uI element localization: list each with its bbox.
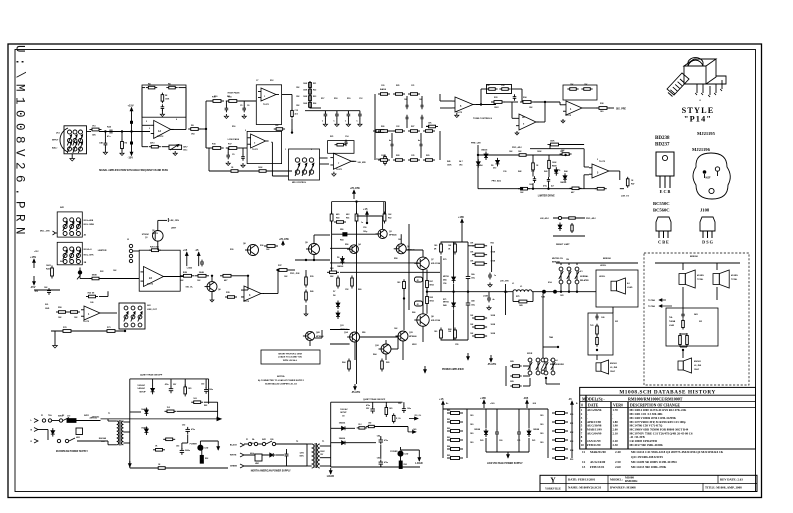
- svg-text:100K: 100K: [165, 99, 170, 101]
- svg-text:D5: D5: [337, 257, 339, 259]
- svg-text:-165: -165: [523, 396, 529, 400]
- svg-text:BRIDGE: BRIDGE: [690, 256, 698, 258]
- svg-text:MUTED ON: MUTED ON: [552, 258, 563, 260]
- svg-text:C60: C60: [499, 440, 502, 442]
- svg-text:LOW PASS: LOW PASS: [228, 138, 240, 141]
- svg-text:60Hz: 60Hz: [250, 453, 254, 455]
- svg-text:1K4B: 1K4B: [199, 271, 205, 274]
- svg-text:LS_JNS: LS_JNS: [694, 365, 702, 367]
- svg-text:PRE_LIM: PRE_LIM: [471, 143, 481, 145]
- svg-text:R55: R55: [491, 243, 494, 245]
- svg-text:MC14214 C41 9816-4218 Q4 2007: MC14214 C41 9816-4218 Q4 200773-4MJ21196…: [631, 450, 724, 454]
- svg-text:240V AC: 240V AC: [90, 417, 98, 420]
- svg-text:LOAD: LOAD: [627, 286, 633, 289]
- svg-text:R66: R66: [412, 312, 415, 314]
- svg-text:MODEL:: MODEL:: [610, 477, 623, 481]
- svg-text:TL072: TL072: [243, 301, 250, 303]
- svg-text:470u: 470u: [191, 428, 195, 431]
- svg-text:BRIDGE/NORM: BRIDGE/NORM: [550, 364, 564, 366]
- svg-text:100K: 100K: [552, 162, 557, 164]
- svg-text:C28: C28: [501, 85, 504, 87]
- svg-text:C B E: C B E: [658, 240, 669, 245]
- svg-text:1K0: 1K0: [434, 245, 437, 247]
- svg-text:-15: -15: [568, 397, 572, 401]
- svg-text:R12: R12: [270, 80, 273, 82]
- svg-text:2: 2: [245, 130, 246, 132]
- svg-text:RESET LIMIT: RESET LIMIT: [556, 244, 570, 246]
- svg-text:R80: R80: [447, 410, 450, 412]
- svg-text:5R6: 5R6: [362, 332, 365, 334]
- svg-text:470u: 470u: [384, 439, 388, 442]
- svg-text:100K: 100K: [537, 151, 542, 153]
- svg-text:R29: R29: [426, 155, 429, 157]
- svg-text:R70: R70: [443, 259, 446, 261]
- svg-text:BS170: BS170: [152, 233, 158, 235]
- svg-text:10: 10: [581, 443, 585, 447]
- svg-text:Q5: Q5: [152, 230, 155, 232]
- svg-text:22K1: 22K1: [150, 143, 155, 145]
- svg-text:60Hz: 60Hz: [300, 456, 304, 458]
- svg-text:PRO_ADJ: PRO_ADJ: [512, 146, 521, 149]
- svg-text:ONLY: ONLY: [694, 369, 700, 371]
- svg-text:14K7: 14K7: [183, 146, 188, 149]
- svg-text:15K2: 15K2: [494, 107, 499, 109]
- svg-text:120V/: 120V/: [320, 451, 325, 453]
- svg-text:1K0B: 1K0B: [491, 333, 496, 335]
- svg-text:1K0: 1K0: [434, 331, 437, 333]
- svg-text:470u: 470u: [366, 404, 370, 407]
- svg-text:4K7: 4K7: [224, 279, 227, 282]
- svg-text:MC14213 960 100K-470K: MC14213 960 100K-470K: [631, 465, 667, 469]
- svg-text:100K: 100K: [303, 90, 308, 92]
- svg-text:WITH LS2 ALL: WITH LS2 ALL: [283, 359, 298, 362]
- svg-text:2.40: 2.40: [615, 450, 621, 454]
- svg-text:1n: 1n: [494, 275, 496, 277]
- svg-text:100n: 100n: [209, 389, 213, 391]
- svg-text:R75: R75: [516, 296, 519, 298]
- svg-text:LIM_JXN: LIM_JXN: [170, 220, 180, 222]
- svg-text:100K: 100K: [447, 165, 452, 167]
- svg-text:+16S: +16S: [490, 403, 495, 405]
- svg-text:2Ω: 2Ω: [699, 321, 702, 323]
- svg-text:R42: R42: [518, 170, 521, 173]
- svg-text:BD238: BD238: [655, 136, 670, 141]
- svg-text:Q21 2N5406-4MJ21195: Q21 2N5406-4MJ21195: [631, 455, 663, 459]
- svg-text:LOAD: LOAD: [669, 324, 675, 327]
- svg-text:1: 1: [285, 149, 286, 151]
- svg-text:SW1: SW1: [60, 207, 64, 209]
- svg-text:PRO_JXN: PRO_JXN: [290, 273, 300, 275]
- svg-text:F1: F1: [246, 439, 248, 441]
- svg-text:R28: R28: [396, 155, 399, 157]
- svg-text:1N0: 1N0: [368, 423, 371, 425]
- svg-text:1K0: 1K0: [540, 433, 543, 435]
- svg-text:1K0: 1K0: [397, 282, 400, 284]
- svg-text:5R6: 5R6: [340, 229, 343, 231]
- svg-text:R82: R82: [204, 405, 207, 407]
- svg-text:1K5: 1K5: [459, 165, 462, 167]
- svg-text:C4B: C4B: [99, 142, 103, 145]
- svg-text:+165: +165: [458, 215, 464, 219]
- svg-text:DESCRIPTION OF CHANGE: DESCRIPTION OF CHANGE: [630, 404, 681, 408]
- svg-text:SIG_MID: SIG_MID: [358, 162, 367, 164]
- svg-text:QUIET TRAN ON/OFF: QUIET TRAN ON/OFF: [363, 398, 386, 401]
- svg-text:J2: J2: [417, 304, 419, 306]
- svg-text:R10: R10: [214, 96, 217, 98]
- svg-text:R21: R21: [313, 83, 316, 85]
- svg-text:R45: R45: [447, 160, 450, 163]
- svg-text:BC560C: BC560C: [653, 208, 670, 213]
- svg-text:BASS: BASS: [380, 88, 387, 91]
- svg-text:+15V: +15V: [128, 103, 134, 107]
- svg-text:SPKR: SPKR: [527, 353, 533, 355]
- svg-text:E C B: E C B: [660, 189, 671, 194]
- svg-text:2.10: 2.10: [613, 431, 619, 435]
- svg-text:C7: C7: [256, 80, 258, 82]
- svg-text:100K: 100K: [258, 167, 263, 169]
- svg-text:C25: C25: [411, 155, 414, 157]
- svg-text:-15V: -15V: [128, 156, 134, 160]
- svg-text:R19: R19: [347, 98, 350, 100]
- svg-text:R23: R23: [313, 96, 316, 98]
- svg-text:C80: C80: [270, 439, 273, 441]
- svg-text:+15V: +15V: [30, 255, 36, 259]
- svg-text:-PLATE: -PLATE: [351, 390, 360, 394]
- svg-text:1K0: 1K0: [470, 442, 473, 444]
- svg-text:C23: C23: [426, 126, 429, 128]
- svg-text:D8: D8: [333, 295, 335, 297]
- svg-text:R26 1M: R26 1M: [88, 293, 95, 295]
- svg-text:LIMITER: LIMITER: [98, 250, 107, 252]
- svg-text:BC550C: BC550C: [653, 201, 670, 206]
- svg-text:LED: LED: [205, 448, 209, 450]
- svg-text:LOAD: LOAD: [187, 267, 193, 270]
- svg-text:D6: D6: [554, 171, 556, 173]
- svg-text:24Ω: 24Ω: [694, 313, 698, 316]
- svg-text:C83: C83: [176, 446, 179, 448]
- svg-text:TL072: TL072: [336, 169, 343, 171]
- svg-text:#: #: [581, 404, 583, 408]
- svg-text:R11: R11: [227, 96, 230, 98]
- svg-text:1K0: 1K0: [540, 415, 543, 417]
- svg-text:R60: R60: [358, 289, 361, 291]
- svg-text:100V.AC: 100V.AC: [340, 408, 348, 411]
- svg-text:RM1000x: RM1000x: [625, 479, 638, 483]
- svg-text:1K0: 1K0: [470, 415, 473, 417]
- svg-text:C56: C56: [443, 283, 446, 285]
- svg-text:POWER: POWER: [390, 451, 398, 453]
- svg-text:+16S: +16S: [412, 429, 417, 431]
- svg-text:K1A: K1A: [548, 281, 552, 284]
- svg-text:C50: C50: [363, 227, 366, 229]
- svg-text:HIGH PASS: HIGH PASS: [228, 92, 240, 95]
- svg-text:15.2: 15.2: [167, 407, 171, 409]
- svg-text:1K5: 1K5: [188, 388, 191, 390]
- svg-text:100u: 100u: [471, 278, 475, 280]
- svg-text:470u: 470u: [543, 185, 547, 188]
- svg-text:C9: C9: [232, 154, 234, 156]
- svg-text:C8: C8: [342, 415, 344, 417]
- svg-text:0R22: 0R22: [430, 301, 434, 303]
- svg-text:1K0: 1K0: [540, 424, 543, 426]
- svg-text:MJ21195: MJ21195: [697, 131, 716, 136]
- svg-text:1K0: 1K0: [470, 424, 473, 426]
- svg-text:MR750: MR750: [443, 276, 449, 278]
- svg-text:MJF: MJF: [706, 177, 711, 180]
- svg-text:R84: R84: [447, 445, 450, 448]
- svg-text:R16: R16: [232, 126, 235, 128]
- svg-text:+165: +165: [480, 396, 486, 400]
- svg-text:F2: F2: [62, 415, 64, 417]
- svg-text:T2A: T2A: [48, 414, 52, 417]
- svg-text:PRO_ADJ: PRO_ADJ: [492, 180, 501, 183]
- svg-text:R71: R71: [443, 299, 446, 301]
- svg-text:R46B: R46B: [552, 165, 557, 168]
- svg-text:MOL-10DB: MOL-10DB: [84, 224, 95, 226]
- svg-text:R2A: R2A: [107, 126, 112, 129]
- svg-text:1K0: 1K0: [540, 442, 543, 444]
- svg-text:U:\M1008V26.PRN: U:\M1008V26.PRN: [13, 45, 27, 240]
- svg-text:MOL-10TK: MOL-10TK: [84, 255, 95, 257]
- svg-text:J108: J108: [700, 208, 710, 213]
- svg-text:F1: F1: [41, 415, 43, 417]
- svg-text:C20: C20: [381, 85, 384, 87]
- svg-text:DATE: DATE: [588, 404, 599, 408]
- svg-text:R83: R83: [447, 437, 450, 439]
- svg-text:TITLE: M1008_AMP_1008: TITLE: M1008_AMP_1008: [705, 486, 742, 490]
- svg-text:R47: R47: [631, 183, 634, 186]
- svg-text:AUG/16/00: AUG/16/00: [590, 460, 606, 464]
- svg-text:2000u: 2000u: [185, 450, 190, 452]
- svg-text:C70: C70: [67, 416, 70, 418]
- svg-text:8Ω/16Ω: 8Ω/16Ω: [694, 361, 701, 363]
- svg-text:R53: R53: [330, 268, 333, 270]
- svg-text:NAME: M1008V26.SCH: NAME: M1008V26.SCH: [568, 486, 601, 490]
- svg-text:1N5/8B: 1N5/8B: [474, 429, 481, 431]
- svg-text:R33: R33: [494, 97, 497, 99]
- svg-text:A) CONNECTED TO LOAD AT POWER: A) CONNECTED TO LOAD AT POWER SUPPLY: [258, 379, 305, 382]
- svg-text:R51: R51: [346, 218, 349, 220]
- svg-text:R92: R92: [205, 458, 208, 460]
- svg-text:1A: 1A: [158, 130, 161, 133]
- svg-text:R18: R18: [334, 98, 337, 100]
- svg-text:1N4148: 1N4148: [481, 149, 487, 152]
- svg-text:C12: C12: [359, 98, 362, 100]
- svg-text:1M0: 1M0: [519, 305, 523, 307]
- svg-text:NORTH AMERICAN POWER SUPPLY: NORTH AMERICAN POWER SUPPLY: [251, 469, 291, 472]
- svg-text:SETUP: SETUP: [139, 391, 146, 393]
- svg-text:3: 3: [311, 149, 312, 151]
- svg-text:R2B: R2B: [183, 272, 188, 274]
- svg-text:100u: 100u: [471, 305, 475, 307]
- svg-text:T1: T1: [108, 413, 110, 415]
- svg-text:DWN/REV: M1008: DWN/REV: M1008: [610, 486, 636, 490]
- svg-text:J2: J2: [417, 280, 419, 282]
- svg-text:1N5/8B: 1N5/8B: [533, 429, 540, 431]
- svg-text:BLACK: BLACK: [230, 444, 238, 447]
- svg-text:TL072: TL072: [157, 136, 164, 138]
- svg-text:R36: R36: [260, 245, 263, 247]
- svg-text:QUIET TRAN ON/OFF: QUIET TRAN ON/OFF: [140, 374, 163, 377]
- svg-text:TO TAB: TO TAB: [648, 299, 655, 302]
- svg-text:4Ω MIN: 4Ω MIN: [731, 274, 738, 277]
- svg-text:D7: D7: [333, 291, 335, 293]
- svg-text:SIG: SIG: [45, 304, 49, 306]
- svg-text:LIM_JXN: LIM_JXN: [500, 281, 509, 283]
- svg-text:R24: R24: [313, 102, 316, 105]
- svg-text:FEB/21/00: FEB/21/00: [587, 443, 601, 447]
- svg-text:LOW VOLTAGE POWER SUPPLY: LOW VOLTAGE POWER SUPPLY: [487, 462, 523, 465]
- svg-text:3: 3: [149, 128, 150, 130]
- svg-text:MAR/01/00: MAR/01/00: [590, 450, 606, 454]
- svg-text:C40: C40: [90, 301, 93, 304]
- svg-text:TAB: TAB: [549, 336, 554, 339]
- svg-text:LIMITER DRIVE: LIMITER DRIVE: [538, 196, 555, 198]
- svg-text:MR750: MR750: [443, 302, 449, 304]
- svg-text:POWER: POWER: [190, 444, 198, 446]
- svg-text:TL072: TL072: [147, 284, 154, 286]
- svg-text:D10: D10: [493, 168, 496, 170]
- svg-text:100K: 100K: [550, 141, 555, 143]
- svg-text:1N4148: 1N4148: [337, 265, 343, 268]
- svg-text:SIG_OL: SIG_OL: [186, 287, 194, 289]
- svg-text:FEB/13/01: FEB/13/01: [590, 465, 605, 469]
- svg-text:MPSA56: MPSA56: [389, 234, 397, 237]
- svg-text:R30: R30: [230, 249, 233, 251]
- svg-text:4n7: 4n7: [418, 139, 421, 142]
- svg-text:13: 13: [582, 465, 586, 469]
- svg-text:LIMIT: LIMIT: [171, 228, 177, 230]
- svg-text:-15V: -15V: [30, 285, 36, 289]
- svg-text:SIGNAL AMPLIFICATION WITH HIGH: SIGNAL AMPLIFICATION WITH HIGH FREQUENCY…: [99, 169, 168, 172]
- svg-text:R65: R65: [386, 362, 389, 364]
- svg-text:+PLATE: +PLATE: [350, 186, 360, 190]
- svg-text:VER#: VER#: [613, 404, 623, 408]
- svg-text:R26: R26: [381, 126, 384, 128]
- svg-text:1K0B: 1K0B: [491, 324, 496, 326]
- svg-text:4K5: 4K5: [336, 213, 339, 216]
- svg-text:1.70: 1.70: [613, 408, 619, 412]
- svg-text:SIG_PRE: SIG_PRE: [616, 109, 626, 111]
- svg-text:R43: R43: [544, 170, 547, 173]
- svg-text:1M0B: 1M0B: [92, 275, 98, 277]
- svg-text:100K: 100K: [303, 96, 308, 98]
- svg-text:24.7: 24.7: [459, 160, 463, 163]
- svg-text:+15: +15: [183, 248, 188, 252]
- svg-text:4u7: 4u7: [551, 185, 554, 188]
- svg-text:MID CONTROL: MID CONTROL: [292, 182, 307, 184]
- svg-text:TONE CONTROLS: TONE CONTROLS: [473, 118, 492, 120]
- svg-text:100K: 100K: [303, 83, 308, 85]
- svg-text:R81: R81: [447, 419, 450, 421]
- svg-text:MJL21194: MJL21194: [431, 319, 441, 322]
- svg-text:100V/AC: 100V/AC: [137, 384, 145, 387]
- svg-text:MOL_JXN: MOL_JXN: [40, 231, 50, 233]
- svg-text:AUG/04/99: AUG/04/99: [587, 431, 602, 435]
- svg-text:R82: R82: [447, 428, 450, 430]
- svg-text:POWER AMPLIFIER: POWER AMPLIFIER: [442, 368, 464, 371]
- svg-text:TOTAL: TOTAL: [697, 278, 704, 281]
- svg-text:GND: GND: [45, 308, 50, 310]
- svg-text:C5: C5: [240, 105, 242, 107]
- svg-text:LS_JNS: LS_JNS: [610, 367, 618, 369]
- svg-text:R17: R17: [321, 98, 324, 100]
- svg-text:2A: 2A: [149, 277, 152, 280]
- svg-text:C84: C84: [377, 435, 380, 438]
- svg-text:RELATED: RELATED: [580, 279, 589, 282]
- svg-text:Q13: Q13: [340, 325, 344, 327]
- svg-text:R39: R39: [310, 276, 313, 278]
- svg-text:BAL>: BAL>: [52, 147, 58, 150]
- svg-text:R40: R40: [310, 290, 313, 293]
- svg-text:LED: LED: [405, 454, 409, 456]
- svg-text:C30: C30: [503, 171, 506, 173]
- svg-text:1N4004: 1N4004: [339, 437, 345, 440]
- svg-text:T2: T2: [296, 441, 298, 443]
- svg-text:REV DATE: 2.63: REV DATE: 2.63: [720, 477, 743, 481]
- svg-text:140V/AC: 140V/AC: [137, 387, 145, 390]
- svg-text:EUROPEAN POWER SUPPLY: EUROPEAN POWER SUPPLY: [56, 450, 88, 453]
- svg-text:BRIDGE: BRIDGE: [603, 258, 611, 260]
- svg-text:LOADS TO LS AND YOU: LOADS TO LS AND YOU: [278, 356, 302, 359]
- svg-text:C85: C85: [377, 458, 380, 460]
- svg-text:C15: C15: [295, 110, 298, 112]
- svg-text:2.30: 2.30: [613, 443, 619, 447]
- svg-text:INPUT: INPUT: [52, 140, 59, 142]
- svg-text:MJL21194: MJL21194: [431, 262, 441, 265]
- svg-text:R21: R21: [330, 136, 333, 138]
- svg-text:WHITE: WHITE: [230, 455, 237, 457]
- svg-text:+PLATE: +PLATE: [279, 237, 289, 241]
- svg-text:Y: Y: [550, 475, 556, 484]
- svg-text:12: 12: [582, 460, 586, 464]
- svg-text:120V: 120V: [300, 453, 305, 455]
- svg-text:4Ω MIN: 4Ω MIN: [697, 274, 704, 277]
- svg-text:R56: R56: [345, 244, 348, 246]
- svg-text:LEVEL: LEVEL: [600, 265, 607, 267]
- svg-text:0R22: 0R22: [412, 344, 417, 346]
- svg-text:1K0: 1K0: [600, 111, 603, 113]
- svg-text:-15: -15: [195, 248, 199, 252]
- svg-text:J3: J3: [127, 239, 129, 241]
- svg-text:470u: 470u: [165, 383, 169, 386]
- svg-text:6: 6: [176, 119, 177, 121]
- svg-text:LEVEL: LEVEL: [599, 276, 606, 278]
- svg-text:-PLATE: -PLATE: [487, 362, 496, 366]
- svg-text:LOAD: LOAD: [483, 295, 489, 298]
- svg-text:M1008.SCH DATABASE HISTORY: M1008.SCH DATABASE HISTORY: [619, 389, 716, 395]
- svg-text:4n5: 4n5: [295, 113, 298, 116]
- svg-text:NOTES:: NOTES:: [277, 376, 286, 378]
- svg-text:SW1: SW1: [262, 439, 266, 441]
- svg-text:1K0: 1K0: [470, 433, 473, 435]
- svg-text:TOTAL: TOTAL: [731, 278, 738, 281]
- svg-text:TH1: TH1: [590, 325, 594, 327]
- svg-text:1K0: 1K0: [193, 398, 196, 400]
- svg-text:R85: R85: [447, 455, 450, 457]
- svg-text:4n7: 4n7: [389, 139, 392, 142]
- svg-text:SW2: SW2: [60, 261, 64, 263]
- svg-text:8Ω/16Ω: 8Ω/16Ω: [610, 363, 617, 365]
- svg-text:R68: R68: [448, 329, 451, 331]
- svg-text:C52: C52: [345, 289, 348, 291]
- svg-text:120V: 120V: [250, 443, 255, 445]
- svg-text:R58: R58: [394, 258, 397, 260]
- svg-text:R22: R22: [313, 90, 316, 92]
- svg-text:MOL+4DB: MOL+4DB: [84, 219, 94, 222]
- svg-text:RO_OL: RO_OL: [415, 415, 422, 417]
- svg-text:Q1: Q1: [145, 237, 148, 239]
